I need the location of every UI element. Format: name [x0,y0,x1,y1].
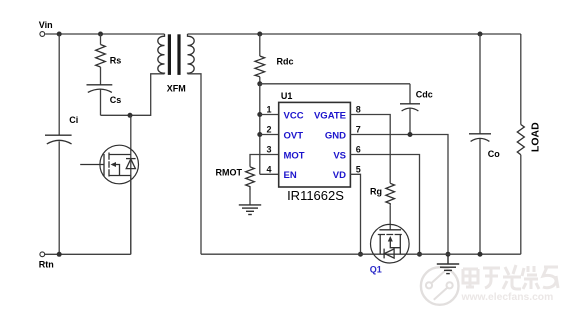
transistor Q1 (SR MOSFET) [371,224,410,263]
node junction pin1 [257,112,262,117]
svg-text:Vin: Vin [39,20,53,30]
node junction Cdc bottom [408,132,413,137]
wire Co bottom lead [479,139,481,254]
wire pin1 VCC stub [260,114,279,116]
resistor LOAD [517,125,524,155]
wire Rdc bottom to VCC node [259,77,261,84]
svg-text:U1: U1 [281,91,293,101]
wire VCC node to Cdc [260,83,410,85]
transistor M1 (primary-side MOSFET) [80,145,138,184]
wire Rs to Cs [100,67,102,85]
node junction Co top [478,32,483,37]
wire M1 drain vertical [130,115,132,254]
wire pin5 VD lead [350,174,360,254]
svg-text:GND: GND [325,130,346,141]
node Vin terminal [40,32,45,37]
capacitor Co [469,134,491,142]
wire VCC bus vertical (pins 1,2,4) [259,84,261,175]
wire top rail right (XFM secondary to LOAD) [188,33,521,35]
svg-text:VS: VS [333,150,346,161]
ground (secondary) [437,254,459,273]
watermark chinese text strokes [463,265,558,289]
wire pin7 GND lead [350,135,448,255]
wire LOAD top lead [520,34,522,125]
node junction Ci bottom [57,252,62,257]
svg-text:Co: Co [488,149,500,159]
wire bottom rail left (Rtn) [45,253,131,255]
node junction Rdc top [257,32,262,37]
svg-text:Rg: Rg [370,186,382,196]
node junction VS rail [417,252,422,257]
wire LOAD bottom lead [520,155,522,254]
svg-text:8: 8 [356,105,361,115]
resistor Rdc [255,56,265,77]
node junction GND rail [446,252,451,257]
wire XFM secondary bottom [188,74,202,254]
wire bottom rail right [201,253,521,255]
wire Cdc bottom lead [409,109,411,135]
svg-text:Rdc: Rdc [277,56,294,66]
svg-text:MOT: MOT [284,150,305,161]
svg-text:XFM: XFM [167,83,186,93]
svg-text:VGATE: VGATE [314,110,346,121]
resistor RMOT [246,167,255,190]
svg-text:RMOT: RMOT [216,168,243,178]
wire Rdc top lead [259,34,261,56]
op-amp U1 IR11662S body [279,102,351,187]
capacitor Ci [45,135,72,144]
svg-text:LOAD: LOAD [529,122,541,152]
wire Cs bottom lead [100,90,102,116]
capacitor Cs [87,85,113,93]
node junction Vin/Ci [57,32,62,37]
svg-text:VD: VD [333,170,346,181]
node junction Rdc/Cdc/VCC [257,81,262,86]
wire Rs top lead [100,34,102,45]
wire Ci bottom lead [58,141,60,254]
wire Cs bottom to XFM primary bottom [101,74,165,116]
svg-text:Cdc: Cdc [416,89,433,99]
resistor Rs [96,45,106,68]
node junction M1 drain [128,113,133,118]
node junction Co bottom [478,252,483,257]
node junction Rs top [98,32,103,37]
wire pin6 VS lead [350,155,419,255]
capacitor Cdc [400,104,420,111]
transformer XFM core [168,34,171,75]
svg-text:EN: EN [284,170,297,181]
wire M1 source vertical [130,176,132,255]
svg-text:Rs: Rs [110,56,122,66]
svg-text:Rtn: Rtn [39,259,54,269]
resistor Rg [386,183,395,206]
svg-text:1: 1 [266,105,271,115]
svg-text:VCC: VCC [284,110,304,121]
ground (RMOT) [239,205,261,215]
wire pin8 VGATE lead [350,115,390,184]
transformer XFM primary winding [158,34,165,74]
node junction pin2 [257,132,262,137]
wire pin2 OVT stub [260,134,279,136]
wire Ci top lead [58,34,60,135]
transformer XFM secondary winding [188,34,195,74]
node Rtn terminal [40,252,45,257]
wire Rg to Q1 gate [389,206,391,230]
wire RMOT to ground [249,190,251,205]
svg-text:Q1: Q1 [370,265,382,275]
svg-text:6: 6 [356,145,361,155]
svg-text:7: 7 [356,125,361,135]
node junction VD rail [358,252,363,257]
svg-text:Ci: Ci [69,115,78,125]
svg-text:IR11662S: IR11662S [287,188,344,203]
wire Cdc top lead [409,84,411,104]
wire top rail left (Vin to XFM primary) [45,33,164,35]
wire pin4 EN stub [260,173,279,175]
svg-text:OVT: OVT [284,130,304,141]
svg-text:4: 4 [266,164,271,174]
capacitor Co leads [479,34,481,134]
watermark logo circle [421,267,459,305]
wire pin3 MOT lead [250,155,279,167]
svg-text:2: 2 [266,125,271,135]
svg-text:5: 5 [356,164,361,174]
svg-text:Cs: Cs [110,95,122,105]
svg-text:3: 3 [266,145,271,155]
svg-text:www.elecfans.com: www.elecfans.com [461,292,554,303]
